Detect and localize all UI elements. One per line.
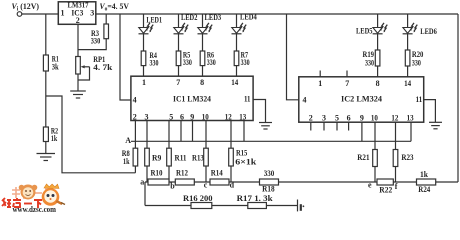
wire IC1 pin4 supply feed: [120, 14, 131, 100]
resistor R8: [133, 148, 138, 166]
svg-text:6×1k: 6×1k: [235, 158, 257, 167]
svg-text:LED6: LED6: [420, 27, 437, 36]
svg-text:R13: R13: [192, 154, 204, 163]
svg-text:11: 11: [416, 95, 423, 104]
wire LED2 to R5: [178, 34, 180, 51]
svg-text:4: 4: [133, 95, 137, 104]
svg-text:4. 7k: 4. 7k: [93, 63, 113, 72]
resistor R5: [176, 51, 181, 66]
svg-text:3: 3: [322, 114, 326, 123]
node A common wire: [131, 140, 411, 142]
svg-text:4: 4: [303, 96, 307, 105]
resistor R15: [229, 148, 234, 166]
wire IC1 pin3 to R9: [146, 121, 148, 149]
wire R13 bottom to node c: [205, 166, 207, 182]
svg-text:3k: 3k: [52, 62, 59, 71]
svg-text:R17 1. 3k: R17 1. 3k: [237, 194, 274, 203]
svg-text:LED1: LED1: [146, 16, 162, 25]
svg-text:R11: R11: [175, 154, 187, 163]
wire IC2 pin2 stub: [310, 122, 312, 130]
svg-text:1k: 1k: [420, 170, 429, 179]
wire LED1 branch: [143, 14, 145, 28]
wire IC1 pin10 to R13: [205, 121, 207, 149]
resistor R17: [248, 203, 267, 209]
resistor R12: [175, 179, 194, 185]
resistor R21: [373, 150, 378, 167]
wire pin2 junction to R3 bottom: [78, 39, 106, 50]
svg-text:R24: R24: [418, 185, 430, 194]
ground at IC2 pin11: [429, 122, 442, 129]
svg-text:11: 11: [244, 94, 251, 103]
wire LED3 to R6: [202, 34, 204, 51]
svg-text:www.dzsc.com: www.dzsc.com: [13, 205, 57, 213]
svg-text:330: 330: [264, 169, 275, 178]
svg-text:3: 3: [145, 112, 149, 121]
wire LED6 branch: [407, 14, 409, 28]
wire IC2 pin13 to node A: [410, 122, 412, 141]
resistor R3: [104, 24, 109, 39]
wire R8 bottom to divider feed: [134, 166, 136, 173]
wire IC1 pin11 to ground: [253, 100, 265, 123]
wire R20 to IC2 pin14: [407, 66, 409, 77]
svg-text:LED2: LED2: [181, 13, 197, 22]
LED2: [174, 23, 189, 34]
red CJK text 维库一下 (drawn strokes): [2, 198, 42, 208]
svg-text:7: 7: [176, 78, 180, 87]
wire LED1 to R4: [143, 34, 145, 51]
wire Vi rail down-branch to R1: [45, 14, 47, 55]
mascot lion with crown: [44, 184, 59, 188]
svg-text:R15: R15: [236, 148, 247, 157]
wire IC1 pin5 to R11: [168, 121, 170, 149]
svg-text:12: 12: [391, 114, 398, 123]
svg-text:8: 8: [200, 78, 204, 87]
svg-text:2: 2: [76, 16, 80, 25]
wire R5 to IC1 pin7: [178, 66, 180, 77]
wire IC1 pin13 to node A: [243, 121, 245, 142]
svg-text:LED5: LED5: [356, 27, 373, 36]
svg-text:R10: R10: [151, 169, 163, 178]
divider chain wire nodes a b c d e f: [145, 181, 458, 183]
resistor R13: [204, 148, 209, 166]
wire R23 bottom to node f: [395, 167, 397, 183]
regulator IC3 LM317 box: [58, 2, 96, 25]
svg-text:R12: R12: [176, 169, 188, 178]
resistor R7: [234, 51, 239, 66]
svg-text:14: 14: [231, 78, 238, 87]
svg-text:3: 3: [90, 8, 94, 17]
wire LED5 to R19: [377, 34, 379, 50]
LED5: [373, 23, 388, 34]
wire IC2 pin4 supply feed: [287, 14, 299, 100]
resistor R16: [191, 203, 212, 209]
svg-text:1: 1: [318, 79, 322, 88]
svg-text:R9: R9: [152, 154, 161, 163]
wire IC2 pin10 to R21: [374, 122, 376, 149]
resistor R11: [167, 148, 172, 166]
svg-text:1: 1: [142, 78, 146, 87]
svg-text:1: 1: [61, 8, 65, 17]
input terminal Vi: [17, 12, 22, 17]
svg-text:f: f: [395, 182, 398, 191]
ground below R2: [37, 154, 56, 161]
wire R3 top to rail: [105, 14, 107, 24]
wire R21 bottom to node e: [374, 167, 376, 183]
svg-text:R21: R21: [357, 153, 369, 162]
wire IC2 pin6 stub: [348, 122, 350, 130]
svg-text:2: 2: [309, 114, 313, 123]
wire IC2 pin9 to node A: [361, 122, 363, 141]
svg-text:330: 330: [91, 37, 101, 46]
op-amp IC1 LM324 box: [131, 76, 253, 120]
svg-text:5: 5: [335, 114, 339, 123]
svg-text:14: 14: [404, 79, 411, 88]
resistor R19: [375, 50, 380, 66]
wire LED4 to R7: [236, 34, 238, 51]
svg-text:IC1 LM324: IC1 LM324: [173, 94, 211, 103]
svg-text:6: 6: [180, 112, 184, 121]
svg-text:Vi (12V): Vi (12V): [12, 1, 40, 13]
wire R7 to IC1 pin14: [236, 66, 238, 77]
wire LED2 branch: [178, 14, 180, 28]
resistor R10: [148, 179, 169, 185]
wire R9 bottom to node a: [146, 166, 148, 182]
ground at IC1 pin11: [259, 123, 272, 130]
resistor R24: [417, 179, 436, 185]
LED1: [139, 23, 154, 34]
svg-text:1k: 1k: [51, 134, 58, 143]
svg-text:330: 330: [183, 58, 192, 67]
potentiometer RP1: [76, 57, 90, 81]
wire node a down to lower chain: [144, 182, 146, 206]
svg-text:2: 2: [133, 112, 137, 121]
resistor R9: [145, 148, 150, 166]
lower chain wire: [145, 205, 298, 207]
ground below RP1: [70, 91, 86, 98]
wire RP1 bottom to ground: [77, 74, 79, 91]
wire IC2 pin7 stub: [346, 71, 348, 77]
svg-text:13: 13: [407, 114, 414, 123]
wire IC2 pin3 stub: [323, 122, 325, 130]
resistor R1: [43, 55, 48, 71]
wire R6 to IC1 pin8: [202, 66, 204, 77]
op-amp IC2 LM324 box: [299, 77, 424, 122]
svg-text:c: c: [204, 181, 208, 190]
LED4: [232, 23, 247, 34]
resistor R22: [377, 179, 393, 185]
wire R2 bottom to ground: [45, 142, 47, 154]
wire IC1 pin9 to node A: [192, 121, 194, 142]
LED3: [198, 23, 213, 34]
svg-text:b: b: [170, 182, 175, 191]
wire IC1 pin12 to R15: [230, 121, 232, 149]
wire R4 to IC1 pin1: [143, 66, 145, 77]
svg-text:330: 330: [150, 59, 159, 68]
resistor R2: [43, 127, 48, 142]
wire IC2 pin5 stub: [336, 122, 338, 130]
wire right edge down from rail to bottom chain: [457, 14, 459, 182]
resistor R6: [200, 51, 205, 66]
svg-text:A: A: [125, 136, 131, 145]
wire R11 bottom to node b: [168, 166, 170, 182]
svg-text:8: 8: [376, 79, 380, 88]
svg-text:R18: R18: [262, 185, 275, 194]
svg-text:LED4: LED4: [240, 13, 257, 22]
svg-text:6: 6: [347, 114, 351, 123]
svg-text:R14: R14: [211, 169, 223, 178]
resistor R4: [141, 51, 146, 66]
svg-text:LED3: LED3: [205, 13, 222, 22]
svg-text:R23: R23: [401, 153, 413, 162]
svg-text:1k: 1k: [123, 157, 130, 166]
resistor R18: [260, 179, 279, 185]
wire R15 bottom to node d: [230, 166, 232, 182]
wire R1 bottom to divider junction to R2: [45, 71, 47, 127]
svg-text:330: 330: [412, 59, 421, 68]
wire IC2 pin12 to R23: [395, 122, 397, 149]
wire LED3 branch: [202, 14, 204, 28]
mascot monkey head: [21, 185, 36, 200]
svg-text:10: 10: [371, 114, 378, 123]
wire LED6 to R20: [407, 34, 409, 50]
svg-text:5: 5: [169, 112, 173, 121]
svg-text:e: e: [368, 181, 372, 190]
svg-text:R16 200: R16 200: [183, 194, 213, 203]
resistor R14: [210, 179, 229, 185]
svg-text:330: 330: [207, 58, 216, 67]
LED6: [403, 23, 418, 34]
svg-text:d: d: [230, 181, 235, 190]
wire IC1 pin2 to node A and R8: [134, 121, 136, 149]
svg-text:a: a: [140, 178, 144, 187]
wire LED4 branch: [236, 14, 238, 28]
wire IC3 pin2 down: [77, 24, 79, 56]
svg-text:R22: R22: [379, 186, 392, 195]
resistor R20: [405, 50, 410, 66]
wire IC1 pin6 to node A: [180, 121, 182, 142]
svg-text:7: 7: [345, 79, 349, 88]
node divider junction branch right: [46, 96, 136, 173]
wire IC2 pin11 to ground: [424, 100, 436, 123]
svg-text:330: 330: [365, 59, 374, 68]
watermark mascot logo: [2, 184, 65, 214]
wire IC2 pin1 stub: [319, 71, 321, 77]
resistor R23: [393, 150, 398, 167]
svg-text:12: 12: [225, 112, 232, 121]
wire LED5 branch: [377, 14, 379, 28]
wire Vi terminal to IC3 pin1: [22, 13, 59, 15]
battery cell terminal: [298, 200, 305, 212]
wire IC3 pin3 output rail Vo: [96, 13, 458, 15]
svg-text:9: 9: [190, 112, 194, 121]
outline text upper (light orange): [12, 187, 53, 198]
svg-text:330: 330: [241, 58, 250, 67]
svg-text:13: 13: [239, 112, 246, 121]
svg-text:Vo=4. 5V: Vo=4. 5V: [100, 1, 130, 13]
svg-text:IC2 LM324: IC2 LM324: [341, 95, 382, 104]
wire R19 to IC2 pin8: [377, 66, 379, 77]
svg-text:9: 9: [360, 114, 364, 123]
svg-text:10: 10: [202, 112, 209, 121]
